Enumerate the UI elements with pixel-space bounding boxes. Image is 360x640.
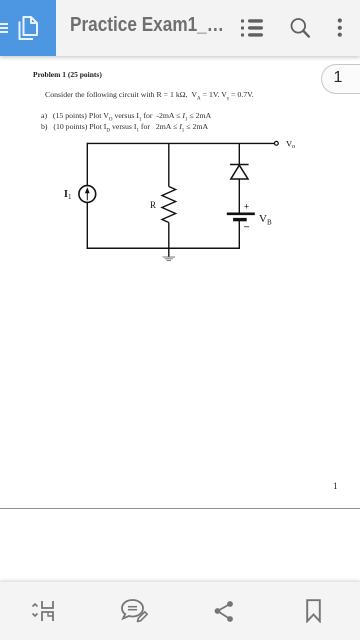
- label I1: [64, 189, 72, 201]
- battery VB long plate: [227, 213, 255, 216]
- document text: [33, 70, 102, 79]
- hamburger menu icon (clipped at left edge): [0, 17, 9, 39]
- wire: diode branch top: [238, 143, 240, 164]
- current source I1: [79, 186, 96, 203]
- svg-text:o: o: [292, 144, 295, 150]
- diode D1 cathode bar: [230, 164, 249, 166]
- node Vo output terminal: [275, 141, 279, 145]
- diode D1 triangle: [231, 165, 248, 179]
- battery VB short plate: [233, 218, 247, 221]
- comment / annotate icon: [120, 598, 149, 624]
- label Vo: [286, 139, 295, 151]
- share icon: [213, 599, 234, 623]
- copy pages icon: [17, 15, 40, 41]
- app bar blue square: [0, 0, 56, 56]
- bookmark icon: [305, 599, 322, 623]
- page indicator pill "1": [321, 64, 360, 94]
- wire: resistor branch bottom: [168, 223, 170, 257]
- svg-text:R: R: [150, 200, 156, 210]
- wire: diode to battery: [238, 179, 240, 213]
- resistor R: [162, 187, 176, 223]
- svg-text:1: 1: [68, 193, 72, 201]
- wire: left vertical above current source: [86, 143, 88, 186]
- page number 1: [333, 481, 338, 491]
- wire: top rail from left branch to output terminal: [87, 142, 274, 144]
- app bar: [0, 0, 360, 56]
- app bar title: [70, 15, 224, 35]
- wire: battery to bottom rail: [238, 221, 240, 249]
- svg-text:–: –: [243, 222, 250, 233]
- wire: bottom rail: [87, 247, 240, 249]
- svg-text:V: V: [259, 213, 267, 225]
- wire: resistor branch top: [168, 143, 170, 186]
- page view mode icon: [30, 599, 56, 623]
- battery VB minus label: [243, 222, 250, 233]
- bottom toolbar: [0, 582, 360, 640]
- overflow 3-dot icon: [335, 16, 345, 40]
- label VB: [259, 213, 272, 227]
- svg-text:+: +: [244, 202, 249, 212]
- battery VB plus label: [244, 202, 249, 212]
- svg-text:B: B: [267, 219, 272, 227]
- label R: [150, 200, 156, 210]
- wire: left vertical below current source: [86, 203, 88, 250]
- list / contents icon: [240, 18, 265, 38]
- page 1 / page 2 separator line: [0, 508, 360, 509]
- search icon: [289, 16, 311, 39]
- ground: [163, 257, 175, 261]
